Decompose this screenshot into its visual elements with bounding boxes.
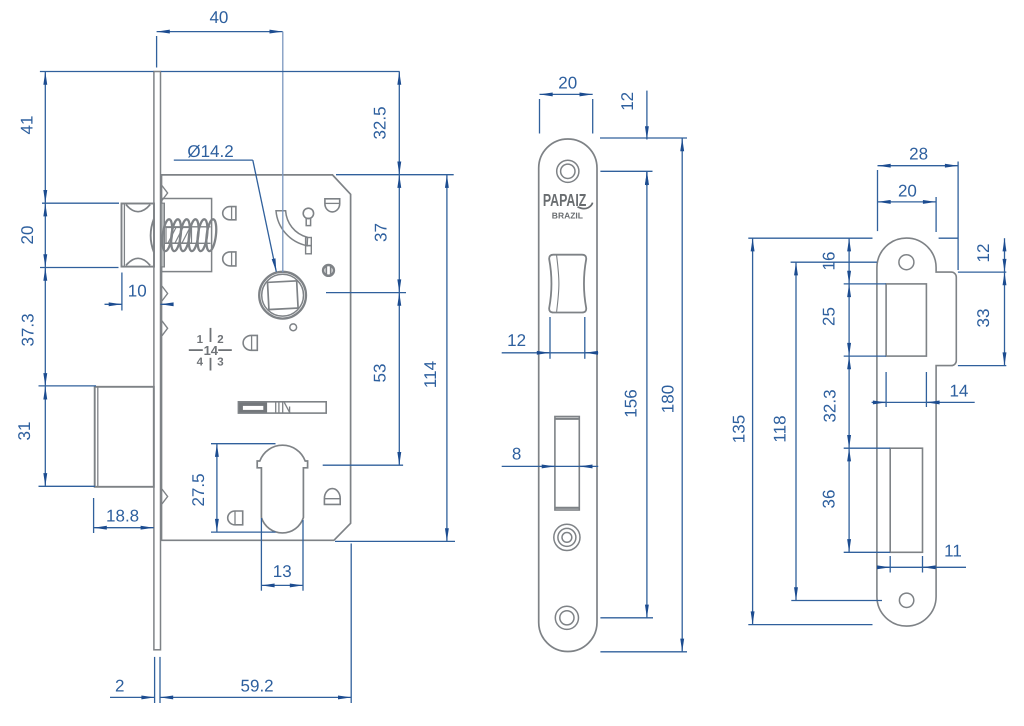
stamp digit 4 xyxy=(197,357,204,369)
dim 16 line xyxy=(848,238,850,284)
faceplate screw countersink mark 2 xyxy=(162,286,168,301)
forend bottom screw hole xyxy=(555,606,578,629)
stamp digit 3 xyxy=(217,357,223,369)
deadbolt head xyxy=(95,387,154,487)
dim 20 forend text xyxy=(558,74,577,93)
ext case bottom xyxy=(335,540,455,542)
ext latch top xyxy=(42,202,119,204)
dim 12 latch line xyxy=(502,352,599,354)
dim 11 text xyxy=(944,542,962,561)
dim 36 line xyxy=(848,448,850,552)
svg-text:12: 12 xyxy=(618,92,637,111)
ext cylinder top xyxy=(211,443,276,445)
rivet end view xyxy=(323,265,334,276)
dim 37 line xyxy=(398,175,400,293)
ext strike window1 bottom xyxy=(844,355,886,357)
svg-text:13: 13 xyxy=(273,562,292,581)
svg-text:25: 25 xyxy=(820,307,839,326)
dim 8 line xyxy=(502,465,599,467)
ext forend bottom screw xyxy=(600,617,653,619)
svg-text:11: 11 xyxy=(944,542,962,561)
svg-text:180: 180 xyxy=(659,385,678,413)
svg-text:53: 53 xyxy=(371,364,390,383)
dim 16 text xyxy=(820,252,839,271)
spindle square hole xyxy=(268,281,299,310)
rivet post D6 bottom-right xyxy=(324,489,340,505)
svg-text:32.3: 32.3 xyxy=(820,389,839,422)
bolt actuator slider xyxy=(238,402,326,413)
faceplate screw countersink mark 1 xyxy=(162,186,168,201)
dim Ø14.2 text xyxy=(187,142,233,161)
dim 12 strike line xyxy=(1004,238,1006,272)
slider block hatch xyxy=(166,228,192,244)
dim 2 text xyxy=(115,677,124,696)
dim 25 line xyxy=(848,284,850,356)
dim 114 line xyxy=(446,175,448,542)
dim 10 arrows xyxy=(105,303,172,305)
ext strike window2 top xyxy=(844,447,891,449)
svg-text:33: 33 xyxy=(974,309,993,328)
svg-text:4: 4 xyxy=(197,357,204,369)
svg-text:27.5: 27.5 xyxy=(189,473,208,506)
svg-text:14: 14 xyxy=(949,382,968,401)
latch opening xyxy=(549,255,586,313)
dim 40 line xyxy=(157,32,283,68)
svg-text:PAPAIZ: PAPAIZ xyxy=(543,190,587,210)
dim 11 ticks xyxy=(890,556,922,573)
ext forend screw xyxy=(600,170,652,172)
ext latch bottom xyxy=(40,267,119,269)
dim 41 line xyxy=(44,72,46,204)
svg-text:20: 20 xyxy=(558,74,577,93)
dim 53 line xyxy=(398,293,400,466)
forend plate outline xyxy=(539,139,597,652)
spring lever arc band xyxy=(276,211,308,246)
dim 118 line xyxy=(795,262,797,600)
ext deadbolt top xyxy=(39,385,97,387)
latch bolt head xyxy=(122,204,155,267)
strike plate outline xyxy=(877,238,956,626)
dim 32.3 text xyxy=(820,389,839,422)
dim 27.5 text xyxy=(189,473,208,506)
strike bottom screw hole xyxy=(899,593,913,607)
svg-text:41: 41 xyxy=(18,116,37,135)
dim 37.3 line xyxy=(44,268,46,387)
svg-text:2: 2 xyxy=(115,677,124,696)
dim 12 forend text xyxy=(618,92,637,111)
washer detail xyxy=(554,524,580,550)
rivet post D1 xyxy=(223,207,236,220)
BRAZIL logo text xyxy=(552,210,583,220)
ext follower centre xyxy=(326,292,406,294)
deadbolt opening xyxy=(555,417,579,511)
dim 31 text xyxy=(15,422,34,441)
rivet post D3 xyxy=(243,335,257,350)
svg-text:18.8: 18.8 xyxy=(106,507,139,526)
dim 20 strike line xyxy=(878,197,937,232)
dim 12 forend line xyxy=(646,91,648,186)
latch spring housing xyxy=(162,199,212,272)
dim 13 line xyxy=(261,584,303,586)
lever end block xyxy=(306,238,312,254)
svg-text:32.5: 32.5 xyxy=(371,106,390,139)
dim 13 ticks xyxy=(261,518,303,591)
dim 135 text xyxy=(729,415,748,443)
svg-text:Ø14.2: Ø14.2 xyxy=(187,142,233,161)
ext strike top xyxy=(748,237,958,239)
svg-text:1: 1 xyxy=(197,334,204,346)
strike top screw hole xyxy=(899,255,914,270)
latch opening inner line xyxy=(557,255,559,311)
svg-text:156: 156 xyxy=(622,389,641,417)
dim 25 text xyxy=(820,307,839,326)
ext tab bottom xyxy=(958,365,1006,367)
ext case top xyxy=(336,174,454,176)
dim 2 ticks xyxy=(155,544,352,704)
ext forend bottom xyxy=(600,651,687,653)
svg-text:59.2: 59.2 xyxy=(241,677,274,696)
dim 20 line xyxy=(44,203,46,267)
dim 14 line xyxy=(872,401,975,403)
svg-text:20: 20 xyxy=(18,226,37,245)
small pin below follower xyxy=(290,324,297,331)
ext forend top xyxy=(600,137,687,139)
strike deadbolt window xyxy=(890,448,922,552)
dim 18.8 line xyxy=(94,527,154,529)
spindle follower hub xyxy=(259,272,306,319)
dim 135 line xyxy=(752,238,754,624)
svg-text:31: 31 xyxy=(15,422,34,441)
dim 59.2 line xyxy=(160,696,351,698)
dim 20 text xyxy=(18,226,37,245)
rivet post D5 bottom-left xyxy=(228,511,243,525)
dim 53 text xyxy=(371,364,390,383)
dim 20 forend line xyxy=(540,94,593,133)
stamp digit 1 xyxy=(197,334,204,346)
dim 10 ext xyxy=(121,273,123,311)
svg-text:135: 135 xyxy=(729,415,748,443)
dim 40 text xyxy=(209,8,228,27)
dim 156 text xyxy=(622,389,641,417)
dim 32.5 line xyxy=(398,72,400,175)
dim 10 text xyxy=(128,282,147,301)
cylinder hole profile xyxy=(257,445,307,533)
dim 32.5 text xyxy=(371,106,390,139)
ext faceplate top xyxy=(40,71,400,73)
svg-text:37.3: 37.3 xyxy=(19,313,38,346)
dim 33 text xyxy=(974,309,993,328)
svg-text:3: 3 xyxy=(217,357,223,369)
stamp number 14 xyxy=(204,343,219,358)
PAPAIZ logo xyxy=(543,190,593,210)
svg-text:28: 28 xyxy=(909,145,928,164)
dim 156 line xyxy=(646,171,648,618)
dim 18.8 text xyxy=(106,507,139,526)
leader Ø14.2 xyxy=(174,160,276,272)
spring guide rods xyxy=(164,227,210,244)
svg-text:114: 114 xyxy=(421,361,440,388)
ext strike screw top xyxy=(791,261,877,263)
stamp cross mark xyxy=(189,328,232,371)
dim 180 text xyxy=(659,385,678,413)
ext tab top xyxy=(958,271,1006,273)
dim 114 text xyxy=(421,361,440,388)
lock case body outline xyxy=(162,175,351,540)
svg-text:BRAZIL: BRAZIL xyxy=(552,210,583,220)
latch tail plate xyxy=(161,203,164,267)
dim 37 text xyxy=(372,223,391,242)
ext deadbolt bottom xyxy=(39,485,96,487)
dim 12 latch ticks xyxy=(550,317,585,359)
rivet post D4 top-right xyxy=(325,199,340,212)
ext strike bottom xyxy=(748,624,872,626)
centerline to spindle xyxy=(282,32,284,273)
dim 41 text xyxy=(18,116,37,135)
svg-text:36: 36 xyxy=(820,490,839,509)
dim 14 text xyxy=(949,382,968,401)
dim 28 text xyxy=(909,145,928,164)
svg-text:12: 12 xyxy=(974,244,993,263)
svg-text:16: 16 xyxy=(820,252,839,271)
rivet post D2 xyxy=(223,252,236,266)
ext cylinder bottom xyxy=(211,531,276,533)
ext cylinder shoulder xyxy=(323,464,403,466)
svg-text:10: 10 xyxy=(128,282,147,301)
dim 18.8 tick xyxy=(93,498,95,533)
forend faceplate side view xyxy=(154,72,161,650)
dim 59.2 text xyxy=(241,677,274,696)
dim 12 latch text xyxy=(507,331,526,350)
ext strike window2 bottom xyxy=(844,551,891,553)
svg-text:20: 20 xyxy=(898,182,917,201)
svg-text:40: 40 xyxy=(209,8,228,27)
dim 180 line xyxy=(681,138,683,652)
keyhole pin detail xyxy=(303,208,313,225)
ext strike bottom screw xyxy=(791,600,882,602)
svg-text:2: 2 xyxy=(217,334,223,346)
dim 31 line xyxy=(44,386,46,486)
forend top screw hole xyxy=(557,160,579,182)
dim 14 ticks xyxy=(886,372,926,407)
dim 11 line xyxy=(877,566,966,568)
svg-text:118: 118 xyxy=(770,415,789,442)
latch spring coil xyxy=(161,219,218,252)
dim 2 arrow xyxy=(110,696,155,698)
svg-text:37: 37 xyxy=(372,223,391,242)
svg-text:12: 12 xyxy=(507,331,526,350)
dim 13 text xyxy=(273,562,292,581)
ext strike window1 top xyxy=(844,283,886,285)
svg-text:8: 8 xyxy=(512,445,521,464)
faceplate screw countersink mark 3 xyxy=(162,321,168,336)
dim 28 line xyxy=(878,162,959,271)
dim 37.3 text xyxy=(19,313,38,346)
dim 118 text xyxy=(770,415,789,442)
strike latch window xyxy=(886,284,926,356)
dim 36 text xyxy=(820,490,839,509)
dim 8 text xyxy=(512,445,521,464)
faceplate screw countersink mark 4 xyxy=(162,489,168,504)
dim 12 strike text xyxy=(974,244,993,263)
dim 20 strike text xyxy=(898,182,917,201)
svg-text:14: 14 xyxy=(204,343,219,358)
dim 32.3 line xyxy=(848,356,850,448)
dim 33 line xyxy=(1004,272,1006,366)
stamp digit 2 xyxy=(217,334,223,346)
dim 27.5 line xyxy=(216,444,218,532)
